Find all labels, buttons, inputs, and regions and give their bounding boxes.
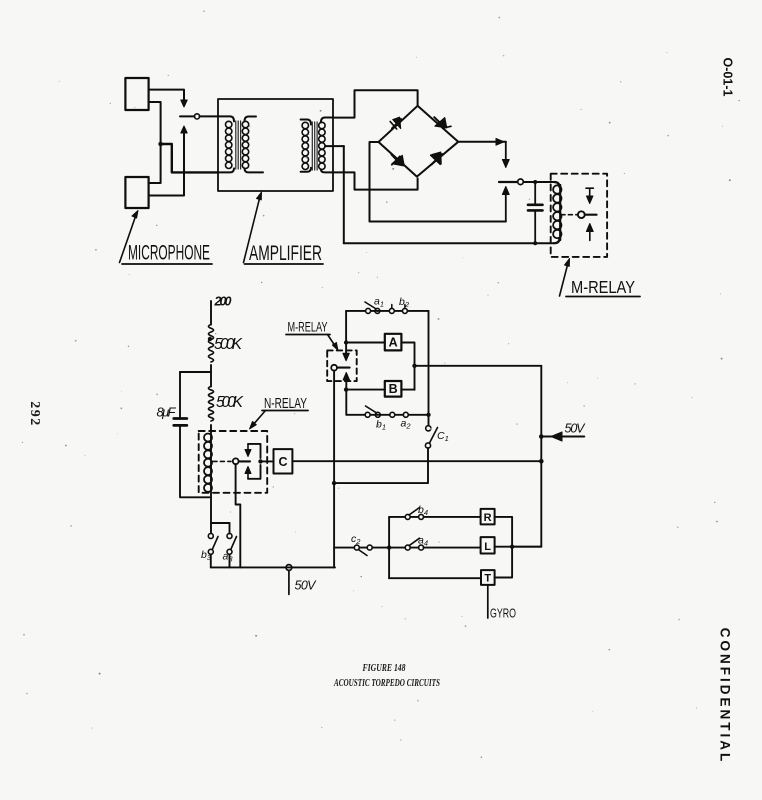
transformer T2 primary winding [302,122,308,169]
selector left bus vertical [388,517,390,578]
svg-text:292: 292 [27,401,42,427]
contact arrowhead down (mic selector upper) [181,100,187,107]
node cap bottom [533,241,537,245]
N-relay armature dashed link [213,460,231,462]
L row to bus junction [495,546,542,548]
wire A to right vertical [401,343,414,390]
N-relay contact frame top bar with arrow down [248,444,261,458]
wire between resistors [210,365,212,387]
wire top row feed from M-relay contact upper [345,311,347,356]
label leader N-RELAY [253,411,266,426]
node junction AB output [412,364,416,368]
label leader AMPLIFIER [244,197,261,263]
wire contact to box C [261,460,274,462]
underline M-RELAY lower [286,334,330,336]
underline MICROPHONE [122,263,212,265]
bottom bus wire [211,566,335,568]
node cap top [533,180,537,184]
M-relay armature dashed link [561,214,577,216]
switch circle [194,114,199,119]
amplifier box [218,99,333,191]
wire AB junction to 50V bus vertical [415,365,542,367]
microphone box 1 (upper) [125,78,148,110]
svg-text:N-RELAY: N-RELAY [264,396,307,412]
bottom row wire with switches b1 a2 [346,414,428,416]
node junction bus and C wire [539,459,544,464]
transformer T2 secondary lead bottom [321,169,333,172]
node junction A row [344,340,348,344]
M-relay dashed enclosure [551,174,607,257]
node junction L row [510,545,514,549]
M-relay lower contact arrow up and lead down [345,377,347,415]
transformer T2 secondary winding [319,122,325,169]
M-relay lower armature bar [337,367,349,369]
label leader M-RELAY upper [560,263,569,296]
label leader M-RELAY lower [328,335,336,347]
N-relay contact frame bottom bar with arrow up [248,465,261,479]
underline N-RELAY [262,410,308,412]
switch b1 circles and blade [365,412,370,417]
M-relay lower contact arrow down [343,353,349,361]
svg-text:M-RELAY: M-RELAY [288,319,328,335]
wire T2 bottom to bridge bottom vertex [333,172,418,189]
svg-text:500K: 500K [216,394,244,411]
svg-text:R: R [484,512,492,524]
transformer T1 primary winding [226,121,232,168]
node N-relay contact output [258,459,262,463]
wire T box to GYRO stub [487,585,489,618]
svg-text:A: A [389,336,398,350]
wire coil bottom to switches b3 a3 [211,522,230,524]
wire center tap down to lower bus [343,146,345,243]
node junction 50V feed [539,434,544,439]
wire junction to amplifier lower input [161,144,218,172]
transformer T1 secondary winding [242,121,248,168]
a4 row wire [389,547,481,549]
switch a4 circles and blade [405,545,410,550]
box C [274,449,293,473]
wire mic1 lower terminal down to junction and mic2 upper terminal [149,102,161,183]
capacitor branch lower lead [180,427,211,498]
M-relay upper contact arrow down with bar [586,188,593,198]
transformer T1 secondary lead top stub [245,117,257,122]
node junction bottom row right [426,413,430,417]
wire 50V bottom stub [288,570,290,594]
svg-text:AMPLIFIER: AMPLIFIER [249,242,322,265]
svg-text:50V: 50V [565,422,587,436]
wire T2 top to bridge top vertex [333,90,418,117]
svg-text:500K: 500K [214,336,243,353]
transformer T2 secondary lead top [321,118,333,123]
capacitor plates [528,205,543,211]
M-relay lower armature pivot circle [331,365,337,371]
wire into N-relay coil [210,425,212,523]
wire box C to 50V bus [292,460,540,462]
M-relay armature pivot circle [578,211,585,218]
M-relay coil top lead [554,182,560,187]
M-relay contact arm arrow down [505,142,507,162]
capacitor 8uF plates [174,419,187,426]
M-relay lower contact arrow up [589,229,591,240]
M-relay contact arrow up [505,192,507,222]
wire C1 down and left to armature vertical [334,448,428,483]
node junction selector left bus [387,545,391,549]
N-relay dashed enclosure [199,431,268,493]
diode D2 top-right [434,117,451,128]
svg-text:CONFIDENTIAL: CONFIDENTIAL [717,628,732,765]
microphone box 2 (lower) [125,177,148,208]
switch blade with circle to amplifier upper input [180,115,218,117]
M-relay coil bottom lead [554,238,560,243]
wire mic1 upper terminal to contact arrow [149,90,184,102]
switch b2 circles with ticks [389,308,394,313]
wire A row [346,342,385,344]
T row wire [389,577,481,579]
M-relay lower dashed enclosure [327,350,357,381]
wire tap to capacitor branch [180,371,211,373]
svg-text:200: 200 [214,295,232,309]
wire c2 row from armature vertical [334,547,389,549]
capacitor branch upper lead [179,372,181,417]
M-relay armature bar [585,214,597,216]
box B [385,381,402,397]
wire B row [346,389,385,391]
transformer T2 primary lead bottom stub [301,168,311,172]
transformer T1 primary lead bottom [218,168,234,172]
wire bridge left vertex to M-relay contact lower arm [370,142,506,222]
svg-text:FIGURE 148: FIGURE 148 [362,662,406,674]
switch c2 circles and blade [354,545,359,550]
diode D1 top-left [390,117,401,129]
transformer T2 secondary center tap [325,145,344,147]
transformer T1 primary lead top [218,116,234,121]
node junction C1 return [332,481,336,485]
right vertical top-row to C1 [428,311,430,426]
wire M-relay armature down to bottom bus [333,371,335,568]
capacitor lead top [534,182,536,204]
wire lower bus center-tap to relay coil bottom [344,242,554,244]
contact arrowhead up (mic selector lower) [181,126,187,133]
underline AMPLIFIER [245,263,324,265]
wire B to right vertical [401,389,414,391]
vertical 50V bus [512,366,541,547]
transformer T2 primary lead top stub [301,120,311,125]
switch b4 circles and blade [405,514,410,519]
RLT right bus [495,517,512,578]
N-relay coil winding [204,434,212,492]
diode D4 bottom-right [431,152,442,165]
svg-text:50V: 50V [295,579,318,593]
node resistor junction dot [208,337,212,341]
switch b3 [208,523,218,567]
svg-text:C: C [278,455,287,469]
M-relay coil winding [553,185,561,238]
rectifier bridge diamond [379,106,459,177]
node junction mic bus [158,142,163,147]
node 50V bottom terminal circle [286,565,292,571]
wire mic2 lower terminal to contact arrow [149,132,184,196]
svg-text:M-RELAY: M-RELAY [571,277,635,297]
transformer T2 core [312,122,317,170]
resistor R2 500K [209,387,214,422]
underline M-RELAY upper [566,296,640,298]
capacitor lead bottom [534,212,536,244]
contact fixed bar with circle [499,181,517,183]
resistor R1 500K [209,325,214,363]
svg-text:O-01-1: O-01-1 [721,58,735,97]
top row wire with switches a1 b2 [346,310,428,312]
box R [481,509,495,525]
b4 row wire [389,516,481,518]
switch a3 [227,523,237,567]
switch a2 circles [390,412,395,417]
M-relay coil core line [559,185,561,240]
box A [385,334,402,351]
svg-text:L: L [484,541,491,553]
switch C1 [426,426,431,431]
svg-text:MICROPHONE: MICROPHONE [128,242,210,265]
transformer T1 secondary lead bottom stub [245,168,264,172]
svg-text:8μF: 8μF [157,405,177,420]
box T [481,570,495,585]
svg-text:T: T [484,573,491,585]
wire contact to relay coil top [524,181,555,183]
N-relay armature bar [239,460,250,462]
box L [481,537,495,553]
wire bridge right vertex to switch with arrow right [458,141,506,143]
svg-text:B: B [389,382,398,396]
label leader MICROPHONE [120,215,137,263]
wire N-relay armature down to bottom bus [236,464,241,567]
svg-text:GYRO: GYRO [490,606,516,621]
N-relay armature pivot circle [233,458,239,464]
wire node 200 top of divider [210,301,212,325]
switch a1 circles and blade [366,308,371,313]
svg-text:ACOUSTIC TORPEDO CIRCUITS: ACOUSTIC TORPEDO CIRCUITS [333,677,440,689]
node junction B row [344,387,348,391]
50V input arrow and lead [541,436,584,438]
diode D3 bottom-left [392,155,405,167]
transformer T1 core [236,121,241,169]
